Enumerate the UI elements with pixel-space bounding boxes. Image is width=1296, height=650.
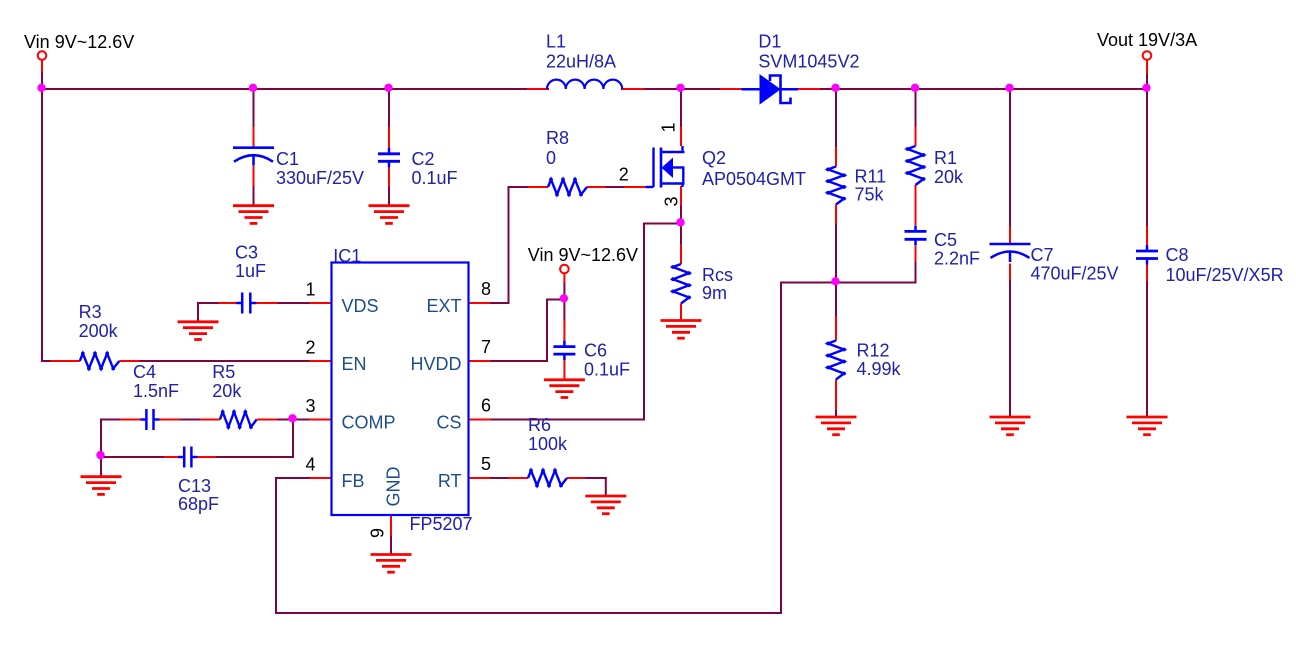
svg-text:8: 8 [481, 279, 491, 299]
ground C1 [233, 206, 274, 224]
wire C5 bottom link [915, 262, 917, 283]
svg-text:SVM1045V2: SVM1045V2 [758, 52, 859, 72]
pin lead IC pin2 [310, 360, 332, 362]
svg-text:9m: 9m [702, 283, 727, 303]
wire feedback row [781, 282, 916, 284]
svg-text:1uF: 1uF [235, 261, 266, 281]
pin lead C3 left [219, 302, 239, 304]
svg-text:9: 9 [368, 528, 388, 538]
pin lead C6 top [563, 320, 565, 341]
pin lead IC pin7 [469, 360, 491, 362]
svg-text:C3: C3 [235, 243, 258, 263]
pin lead R1 bottom [915, 185, 917, 225]
ground C6 [544, 380, 585, 398]
wire HVDD link [491, 300, 565, 362]
pin lead R1 top [915, 127, 917, 146]
wire C4 to R5 [176, 419, 200, 421]
wire C2 upper [388, 89, 390, 127]
capacitor C7 [990, 244, 1031, 262]
terminal Vin [38, 51, 47, 60]
pin lead Q2 pin1 [680, 126, 682, 146]
wire feedback right vertical [780, 283, 782, 614]
wire R11 lower [835, 224, 837, 283]
wire R6 to ground [586, 478, 606, 496]
wire C1 lower [253, 186, 255, 206]
svg-text:20k: 20k [212, 381, 242, 401]
pin lead R8 right [587, 186, 606, 188]
ground R12 [816, 417, 857, 435]
svg-text:330uF/25V: 330uF/25V [276, 168, 364, 188]
pin lead IC pin3 [310, 419, 332, 421]
svg-text:Vin 9V~12.6V: Vin 9V~12.6V [24, 32, 134, 52]
pin lead C13 left [164, 456, 181, 458]
pin lead Vout stub [1146, 60, 1148, 74]
wire C7 lower [1009, 280, 1011, 418]
pin lead Rcs bottom [680, 304, 682, 321]
diode D1 [742, 75, 799, 104]
wire corner to R3 [42, 360, 52, 362]
svg-text:C2: C2 [412, 149, 435, 169]
svg-text:R1: R1 [934, 148, 957, 168]
svg-text:C7: C7 [1031, 245, 1054, 265]
junction Vout bus [1142, 84, 1150, 92]
pin lead C2 top [388, 127, 390, 149]
ground IC pin9 [371, 555, 412, 573]
junction C7 bus [1005, 84, 1013, 92]
inductor L1 [547, 80, 622, 89]
pin lead D1 cathode [798, 88, 820, 90]
svg-text:6: 6 [481, 396, 491, 416]
pin lead Vin2 stub [563, 274, 565, 283]
pin lead C3 right [253, 302, 277, 304]
svg-text:COMP: COMP [342, 413, 396, 433]
wire C3 to VDS [277, 302, 309, 304]
junction D1 out [831, 84, 839, 92]
wire RT left [491, 477, 509, 479]
junction FB divider node [831, 277, 839, 285]
junction C2 bus [384, 84, 392, 92]
svg-text:GND: GND [384, 467, 404, 507]
resistor R8 [548, 178, 587, 197]
resistor Rcs [671, 264, 691, 304]
wire R5 to COMP [277, 419, 310, 421]
wire main bus right [622, 88, 1147, 90]
junction L1 out [676, 84, 684, 92]
svg-text:EXT: EXT [426, 296, 461, 316]
svg-text:4: 4 [305, 455, 315, 475]
svg-text:2: 2 [619, 165, 629, 185]
svg-text:IC1: IC1 [333, 246, 361, 266]
junction COMP node [288, 414, 296, 422]
svg-text:0: 0 [546, 148, 556, 168]
IC U1 FP5207 body [332, 263, 469, 516]
svg-text:RT: RT [438, 471, 462, 491]
wire R8 to Q2 gate [606, 186, 625, 188]
svg-text:R6: R6 [528, 415, 551, 435]
svg-text:VDS: VDS [342, 296, 379, 316]
wire C8 upper [1146, 73, 1148, 226]
wire Q2 source to junction [680, 206, 682, 224]
svg-text:R12: R12 [857, 341, 890, 361]
pin lead IC pin5 [469, 477, 491, 479]
wire FB to IC [276, 477, 310, 479]
pin lead C6 bottom [563, 360, 565, 380]
svg-text:3: 3 [305, 396, 315, 416]
wire C1 upper [253, 89, 255, 127]
svg-text:Rcs: Rcs [702, 265, 733, 285]
ground comp network [81, 477, 122, 495]
capacitor C1 [233, 148, 274, 166]
wire CS link [491, 224, 682, 420]
pin lead R5 left [200, 419, 220, 421]
capacitor C13 [178, 447, 197, 468]
capacitor C3 [236, 293, 256, 314]
wire Rcs upper [680, 224, 682, 245]
svg-text:1.5nF: 1.5nF [133, 381, 179, 401]
svg-text:R8: R8 [546, 128, 569, 148]
svg-text:C5: C5 [934, 230, 957, 250]
wire C8 lower [1146, 281, 1148, 417]
wire Vin2 column [563, 283, 565, 320]
pin lead R3 right [119, 360, 139, 362]
wire left vertical Vin to R3 row [41, 71, 43, 361]
ground Rcs [661, 321, 702, 339]
pin lead C8 bottom [1146, 265, 1148, 282]
svg-text:10uF/25V/X5R: 10uF/25V/X5R [1166, 265, 1284, 285]
pin lead Vin stub [41, 60, 43, 72]
svg-text:7: 7 [481, 337, 491, 357]
pin lead Rcs top [680, 244, 682, 264]
wire COMP left elbow [101, 420, 126, 477]
resistor R3 [80, 352, 120, 371]
pin lead R8 left [528, 186, 548, 188]
junction Q2 source [676, 218, 684, 226]
pin lead L1 left [527, 88, 547, 90]
pin lead IC pin6 [469, 419, 491, 421]
wire COMP junction drop [216, 420, 294, 458]
svg-text:3: 3 [662, 196, 682, 206]
pin lead C8 top [1146, 226, 1148, 245]
terminal Vout [1143, 51, 1152, 60]
svg-text:22uH/8A: 22uH/8A [546, 52, 616, 72]
svg-text:75k: 75k [855, 185, 885, 205]
pin lead R11 top [835, 147, 837, 167]
wire C3 ground link [198, 303, 219, 322]
wire C7 upper [1009, 89, 1011, 227]
pin lead R6 left [508, 477, 528, 479]
pin lead Q2 gate [624, 186, 645, 188]
wire C13 left [101, 456, 164, 458]
pin lead R3 left [51, 360, 80, 362]
pin lead L1 right [622, 88, 644, 90]
transistor Q2 [645, 146, 684, 188]
resistor R1 [906, 146, 926, 185]
capacitor C5 [905, 225, 927, 245]
svg-text:D1: D1 [758, 32, 781, 52]
junction Vin bus [37, 84, 45, 92]
ground R6 [585, 496, 626, 514]
pin lead IC pin9 [390, 515, 392, 536]
resistor R5 [220, 410, 257, 429]
svg-text:L1: L1 [546, 32, 566, 52]
capacitor C4 [140, 409, 159, 430]
pin lead IC pin8 [469, 302, 491, 304]
pin lead IC pin4 [310, 477, 332, 479]
pin lead C2 bottom [388, 167, 390, 188]
wire FB left vertical [275, 478, 277, 613]
wire main bus left [42, 88, 548, 90]
pin lead D1 anode [720, 88, 741, 90]
pin lead C13 right [194, 456, 215, 458]
wire R1 upper [915, 89, 917, 127]
wire R11 upper [835, 89, 837, 147]
svg-text:68pF: 68pF [178, 494, 219, 514]
junction Vin2 node [560, 294, 568, 302]
resistor R6 [528, 469, 567, 488]
svg-text:Vin 9V~12.6V: Vin 9V~12.6V [528, 245, 638, 265]
svg-text:FP5207: FP5207 [410, 514, 473, 534]
svg-text:1: 1 [305, 280, 315, 300]
pin lead C4 right [157, 419, 181, 421]
junction C1 bus [249, 84, 257, 92]
ground C3 [178, 322, 219, 340]
svg-text:C8: C8 [1166, 245, 1189, 265]
pin lead R12 bottom [835, 380, 837, 411]
capacitor C6 [553, 341, 575, 361]
wire R12 upper [835, 283, 837, 317]
pin lead R5 right [257, 419, 277, 421]
svg-text:FB: FB [342, 471, 365, 491]
svg-text:R3: R3 [79, 302, 102, 322]
pin lead C5 bottom [915, 246, 917, 263]
ground C7 [990, 417, 1031, 435]
pin lead C7 top [1009, 227, 1011, 244]
resistor R12 [826, 341, 846, 380]
svg-text:1: 1 [659, 122, 679, 132]
pin lead C7 bottom [1009, 264, 1011, 280]
svg-text:AP0504GMT: AP0504GMT [702, 169, 806, 189]
svg-text:200k: 200k [79, 321, 119, 341]
svg-text:2.2nF: 2.2nF [934, 249, 980, 269]
svg-text:C4: C4 [133, 362, 156, 382]
wire R12 lower [835, 410, 837, 417]
svg-text:C6: C6 [584, 340, 607, 360]
pin lead Q2 pin3 [680, 186, 682, 206]
svg-text:CS: CS [436, 413, 461, 433]
ground C8 [1127, 417, 1168, 435]
svg-text:Vout 19V/3A: Vout 19V/3A [1097, 30, 1197, 50]
junction comp-left node [96, 451, 104, 459]
capacitor C8 [1136, 245, 1158, 265]
svg-text:C1: C1 [276, 149, 299, 169]
wire bottom run [276, 612, 781, 614]
svg-text:R11: R11 [855, 166, 887, 186]
svg-text:0.1uF: 0.1uF [584, 360, 630, 380]
svg-text:5: 5 [481, 454, 491, 474]
svg-text:EN: EN [342, 354, 367, 374]
pin lead IC pin1 [310, 302, 332, 304]
resistor R11 [826, 167, 846, 205]
wire C2 lower [388, 187, 390, 206]
svg-text:20k: 20k [934, 167, 964, 187]
svg-text:C13: C13 [178, 476, 211, 496]
wire EXT to R8 [491, 187, 529, 303]
junction R1 bus [911, 84, 919, 92]
svg-text:0.1uF: 0.1uF [412, 168, 458, 188]
wire Q2 drain drop [680, 89, 682, 126]
ground C2 [369, 206, 410, 224]
wire EN run [140, 360, 310, 362]
pin lead R11 bottom [835, 205, 837, 225]
svg-text:2: 2 [305, 338, 315, 358]
pin lead C1 top [253, 127, 255, 147]
svg-text:4.99k: 4.99k [857, 359, 902, 379]
wire GND pin stub [390, 536, 392, 555]
svg-text:R5: R5 [212, 362, 235, 382]
pin lead R12 top [835, 316, 837, 341]
pin lead C4 left [121, 419, 144, 421]
capacitor C2 [378, 148, 400, 168]
svg-text:100k: 100k [528, 434, 568, 454]
terminal Vin2 [560, 265, 569, 274]
svg-text:Q2: Q2 [702, 148, 726, 168]
pin lead C1 bottom [253, 166, 255, 186]
pin lead R6 right [567, 477, 586, 479]
svg-text:470uF/25V: 470uF/25V [1031, 264, 1119, 284]
svg-text:HVDD: HVDD [410, 354, 461, 374]
